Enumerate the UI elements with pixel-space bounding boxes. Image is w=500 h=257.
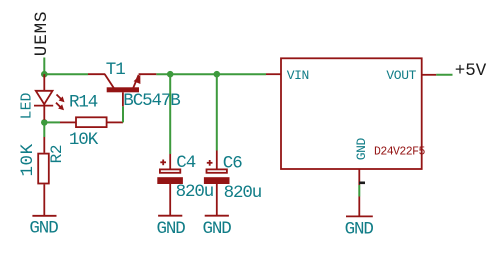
wire LED to R2 (43, 120, 45, 137)
resistor R2 (38, 137, 49, 216)
svg-text:C4: C4 (176, 153, 195, 173)
svg-text:C6: C6 (223, 153, 242, 173)
resistor R14 (44, 117, 123, 127)
transistor T1 BC547B (88, 74, 156, 106)
svg-text:+5V: +5V (455, 61, 487, 81)
svg-text:VIN: VIN (287, 68, 309, 83)
svg-text:VOUT: VOUT (386, 68, 416, 83)
label C4 (176, 153, 195, 173)
net label UEMS (32, 11, 52, 57)
regulator U1 D24V22F5 box (281, 58, 422, 169)
capacitor C6 (204, 151, 230, 216)
junction node at UEMS (41, 71, 48, 78)
label T1 (106, 60, 125, 80)
svg-text:R14: R14 (69, 92, 98, 112)
label R2 (48, 145, 66, 164)
ground GND1 under R2 (29, 216, 58, 239)
pin VOUT (386, 68, 436, 83)
wire VOUT to +5V (436, 74, 452, 76)
ground GND4 under regulator (345, 197, 374, 240)
svg-text:10K: 10K (18, 143, 38, 176)
svg-text:820u: 820u (176, 182, 214, 202)
label D24V22F5 (374, 145, 425, 158)
svg-text:GND: GND (345, 220, 374, 240)
svg-text:D24V22F5: D24V22F5 (374, 145, 425, 158)
wire R14 to transistor base (122, 106, 124, 122)
svg-text:GND: GND (29, 218, 58, 238)
label R2 value 10K (18, 143, 38, 176)
pin VIN (266, 68, 309, 83)
junction node at C4 (167, 71, 174, 78)
ground GND2 under C4 (157, 216, 186, 239)
ground GND3 under C6 (203, 216, 232, 239)
label LED (19, 92, 35, 119)
pin GND of regulator (354, 137, 369, 185)
junction node at C6 (214, 71, 221, 78)
wire C4 vertical (169, 74, 171, 154)
label C6 value 820u (224, 183, 262, 203)
wire regulator GND down (358, 185, 360, 197)
LED diode (34, 74, 65, 120)
wire UEMS to junction (43, 58, 45, 75)
capacitor C4 (157, 154, 183, 216)
svg-text:10K: 10K (69, 130, 99, 150)
wire C6 vertical (216, 74, 218, 150)
label C4 value 820u (176, 182, 214, 202)
svg-text:LED: LED (19, 92, 35, 119)
svg-text:GND: GND (157, 219, 186, 239)
net label +5V (455, 61, 487, 81)
label R14 value 10K (69, 130, 99, 150)
junction node LED cathode (41, 119, 48, 126)
label R14 (69, 92, 98, 112)
label C6 (223, 153, 242, 173)
wire main horizontal net (44, 73, 266, 75)
svg-text:BC547B: BC547B (123, 91, 180, 111)
svg-text:UEMS: UEMS (32, 11, 52, 57)
label BC547B (123, 91, 180, 111)
svg-text:R2: R2 (48, 145, 66, 164)
svg-text:GND: GND (203, 219, 232, 239)
svg-text:GND: GND (354, 137, 369, 160)
svg-text:T1: T1 (106, 60, 125, 80)
svg-text:820u: 820u (224, 183, 262, 203)
